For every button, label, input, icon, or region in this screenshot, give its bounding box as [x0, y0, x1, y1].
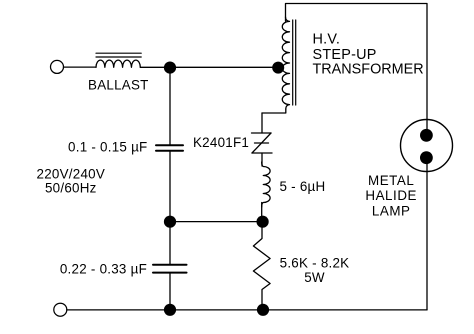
- svg-text:STEP-UP: STEP-UP: [313, 47, 377, 63]
- svg-text:0.1 - 0.15 µF: 0.1 - 0.15 µF: [68, 139, 147, 154]
- svg-text:METAL: METAL: [368, 173, 414, 188]
- svg-text:LAMP: LAMP: [372, 203, 411, 218]
- svg-text:5 - 6µH: 5 - 6µH: [280, 179, 326, 194]
- svg-text:HALIDE: HALIDE: [365, 188, 417, 203]
- svg-text:5.6K - 8.2K: 5.6K - 8.2K: [280, 256, 350, 271]
- svg-text:H.V.: H.V.: [313, 31, 341, 47]
- svg-text:TRANSFORMER: TRANSFORMER: [313, 62, 424, 78]
- svg-text:50/60Hz: 50/60Hz: [45, 181, 97, 196]
- svg-text:BALLAST: BALLAST: [88, 78, 149, 93]
- svg-text:5W: 5W: [304, 270, 325, 285]
- svg-text:K2401F1: K2401F1: [193, 135, 249, 150]
- svg-text:0.22 - 0.33 µF: 0.22 - 0.33 µF: [60, 261, 147, 276]
- svg-text:220V/240V: 220V/240V: [37, 167, 106, 182]
